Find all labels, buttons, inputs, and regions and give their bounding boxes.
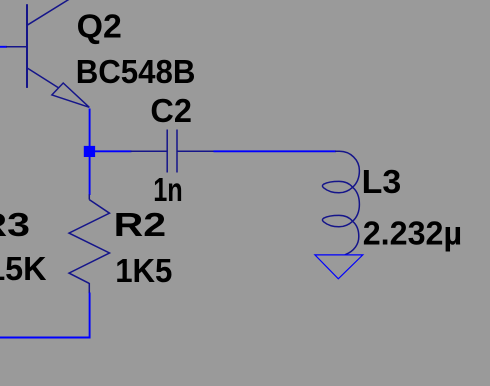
svg-text:1K5: 1K5 — [115, 252, 172, 289]
transistor Q2 emitter arrow — [52, 83, 89, 107]
svg-text:Q2: Q2 — [77, 7, 122, 44]
transistor Q2 — [6, 0, 89, 107]
wire node to resistor — [89, 152, 91, 196]
transistor Q2 collector — [27, 0, 70, 25]
svg-text:2.232µ: 2.232µ — [363, 215, 462, 252]
svg-text:L3: L3 — [362, 163, 402, 200]
transistor Q2 base wire — [0, 46, 7, 48]
resistor R2 zigzag — [69, 200, 110, 284]
resistor R2 bottom lead — [88, 283, 90, 293]
capacitor C2 right lead — [177, 150, 215, 152]
capacitor C2 left lead — [131, 150, 168, 152]
wire node to capacitor — [90, 150, 132, 152]
svg-text:1n: 1n — [153, 171, 183, 208]
transistor Q2 base bar — [26, 4, 28, 88]
svg-text:C2: C2 — [150, 92, 192, 129]
resistor R2 top lead — [88, 194, 90, 199]
ground — [315, 255, 363, 279]
transistor Q2 emitter line — [27, 68, 59, 88]
node A — [84, 146, 95, 157]
wire emitter to node — [89, 109, 91, 152]
capacitor C2 — [131, 130, 215, 173]
transistor Q2 base lead — [6, 46, 27, 48]
wire capacitor to inductor — [214, 150, 337, 152]
svg-text:R2: R2 — [114, 206, 167, 243]
capacitor C2 left plate — [166, 130, 168, 173]
wire resistor to bottom — [0, 293, 90, 338]
resistor R2 — [69, 194, 110, 293]
svg-text:15K: 15K — [0, 250, 47, 287]
capacitor C2 right plate — [176, 130, 178, 173]
inductor L3 — [322, 151, 359, 255]
svg-text:BC548B: BC548B — [76, 53, 196, 90]
svg-text:R3: R3 — [0, 206, 30, 243]
